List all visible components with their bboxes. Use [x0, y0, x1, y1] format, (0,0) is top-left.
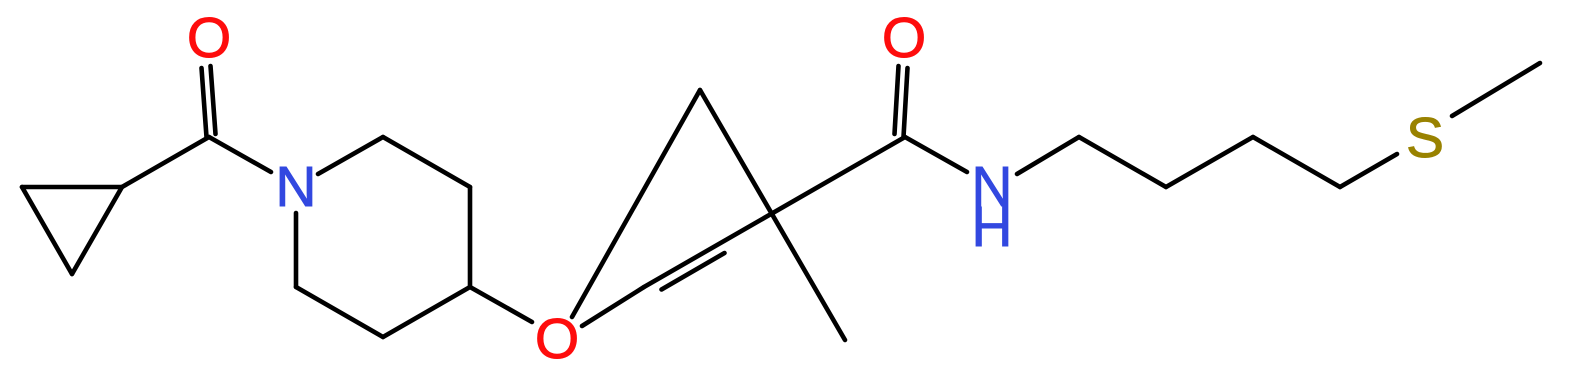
chain C20-C21=C22-C23-C24 main line	[644, 137, 905, 287]
svg-text:N: N	[275, 155, 316, 219]
alkene C20=C21 second line	[662, 253, 725, 290]
wire S-CH3	[1452, 63, 1540, 116]
svg-text:O: O	[187, 6, 231, 70]
wire C30-C31	[1079, 137, 1166, 187]
wire C11-C10	[122, 137, 209, 187]
wire C4-O2	[470, 287, 532, 322]
svg-text:H: H	[971, 195, 1012, 259]
wire C33-S	[1340, 154, 1397, 187]
wire C10-N1	[209, 137, 271, 172]
svg-text:S: S	[1406, 106, 1444, 170]
piperidine ring N1-C2-C3-C4-C5-C6	[296, 137, 470, 337]
amide C24=O3 double bond	[895, 66, 908, 137]
wire C31-C32	[1166, 137, 1253, 187]
bridge apex CH2	[572, 90, 845, 340]
wire N2-C30	[1017, 137, 1079, 174]
wire C32-C33	[1253, 137, 1340, 187]
wire O2-C20	[582, 287, 644, 326]
ketone C10=O1 double bond	[202, 66, 216, 137]
cyclopropane ring C11-C12-C13	[22, 187, 122, 274]
wire C24-N2	[905, 137, 967, 172]
svg-text:O: O	[882, 6, 926, 70]
